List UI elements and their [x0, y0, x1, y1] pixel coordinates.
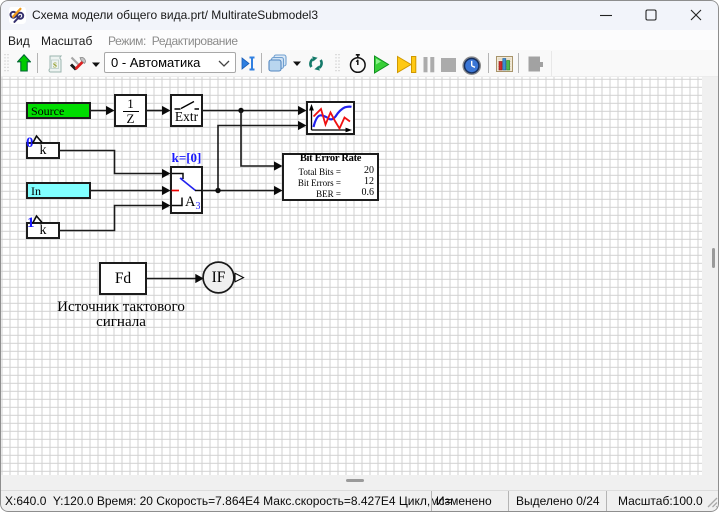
toolbar grip left	[3, 52, 9, 74]
minimize button	[596, 5, 616, 25]
block k upper (gain)	[26, 142, 60, 159]
toolbar combobox	[104, 52, 236, 73]
toolbar button: run (green)	[373, 55, 390, 74]
scope red curve	[314, 109, 351, 129]
IF output port triangle	[235, 273, 244, 282]
toolbar button: clock (blue)	[462, 56, 482, 76]
switch interior: output stub	[195, 190, 202, 192]
block Fd (clock source)	[99, 262, 147, 295]
menu bar	[0, 30, 719, 50]
status bar	[1, 491, 718, 511]
toolbar button: refresh (teal)	[307, 56, 325, 71]
toolbar dropdown arrow 1	[91, 61, 101, 68]
block Scope (graph)	[306, 101, 355, 135]
label 0 (port number, blue)	[26, 135, 34, 152]
canvas with grid	[1, 77, 702, 475]
block A3 switch	[170, 166, 203, 214]
maximize button	[641, 5, 661, 25]
toolbar separator	[518, 53, 519, 73]
toolbar separator	[37, 53, 38, 73]
value Total Bits	[284, 167, 341, 177]
clock caret on k lower	[33, 216, 43, 224]
toolbar button: pause (gray, disabled)	[423, 56, 436, 73]
switch interior: input 1 stub	[172, 174, 183, 180]
caption: Источник тактового сигнала	[41, 300, 201, 330]
junction on switch output	[215, 188, 220, 193]
label k=[0] (switch key, blue)	[170, 150, 203, 166]
switch interior: input 3 stub	[172, 198, 182, 206]
title bar	[0, 0, 719, 30]
toolbar button: step to (blue)	[241, 55, 256, 72]
wire k lower to switch input 3	[60, 201, 171, 231]
scope blue curve	[314, 107, 352, 127]
block In (input port)	[26, 182, 91, 199]
vertical scrollbar area	[702, 77, 718, 475]
wire Extr to Scope input 1	[203, 106, 307, 115]
switch interior: blue switch arm	[180, 178, 196, 191]
toolbar button: load green arrow	[17, 54, 31, 73]
label 1 (port number, blue)	[27, 215, 35, 232]
switch interior: red middle stub	[172, 190, 180, 192]
toolbar button: report (gray)	[528, 56, 544, 72]
wire junction up to Scope input 2	[218, 121, 307, 191]
wire switch output to Bit Error Rate input 2	[203, 186, 283, 195]
toolbar panel edge	[551, 51, 552, 76]
wire In to switch input 2	[91, 186, 171, 195]
window title	[32, 8, 318, 22]
wire k upper to switch input 1	[60, 151, 171, 179]
block Extr (extrapolator)	[170, 94, 203, 127]
vertical scrollbar thumb	[712, 248, 715, 268]
block k lower (gain)	[26, 222, 60, 239]
toolbar	[0, 50, 719, 77]
svg-text:IF: IF	[212, 269, 226, 286]
junction on Extr wire	[238, 108, 243, 113]
block Source	[26, 102, 91, 119]
value BER	[284, 189, 341, 199]
horizontal scrollbar thumb	[346, 479, 364, 482]
scope axes	[312, 107, 350, 131]
wire Fd to IF	[147, 274, 204, 283]
app icon	[9, 7, 26, 24]
wire Source to 1/Z	[91, 106, 115, 115]
toolbar separator	[488, 53, 489, 73]
horizontal scrollbar band	[1, 475, 718, 491]
clock caret on k upper	[33, 136, 43, 144]
toolbar button: step to next (yellow)	[396, 55, 417, 74]
label A3 (switch name)	[185, 194, 200, 212]
toolbar dropdown arrow 2	[292, 60, 302, 67]
toolbar button: layers	[268, 54, 287, 72]
toolbar button: script	[47, 55, 62, 73]
toolbar button: stop (gray, disabled)	[441, 58, 456, 72]
toolbar button: chart	[496, 56, 513, 72]
close button	[686, 5, 706, 25]
block Bit Error Rate	[282, 153, 379, 201]
toolbar button: stopwatch	[349, 53, 367, 74]
toolbar separator	[261, 53, 262, 73]
block 1/Z (delay)	[114, 94, 147, 127]
wire 1/Z to Extr	[147, 106, 171, 115]
wire junction down to Bit Error Rate input 1	[241, 111, 283, 171]
toolbar button: tools	[69, 55, 87, 73]
block IF (circle)	[203, 262, 234, 293]
value Bit Errors	[284, 178, 341, 188]
toolbar grip 2	[334, 52, 340, 74]
